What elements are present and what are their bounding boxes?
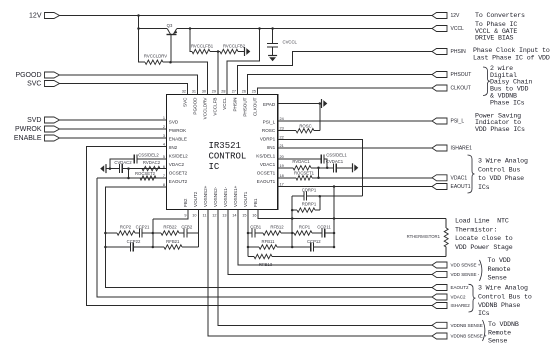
svg-text:OCSET1: OCSET1: [257, 170, 276, 175]
wire SVC to pin 32: [60, 84, 188, 95]
wire RDRP1 to junction: [315, 209, 320, 211]
off-page connector port EAOUT2: [432, 285, 447, 291]
wire VOUT2 pin 10 node vertical: [198, 210, 200, 248]
svg-text:VDD SENSE +: VDD SENSE +: [451, 263, 481, 268]
off-page connector port VDDNB SENSE+: [432, 333, 447, 339]
junction VDAC1 / ROCSET1 branch: [317, 167, 320, 170]
wire PHSOUT pin 26 to port: [248, 75, 433, 95]
svg-text:VCCL: VCCL: [451, 26, 465, 32]
svg-text:VDAC2: VDAC2: [451, 295, 467, 300]
wire VDAC1 bus to port: [312, 177, 432, 179]
capacitor CVDAC2: [119, 164, 122, 173]
wire VDAC1 pin 19: [278, 167, 293, 169]
wire FB2 node vertical: [152, 219, 154, 247]
svg-text:Load Line NTCThermistor:Locat: Load Line NTCThermistor:Locate close toV…: [455, 216, 513, 251]
wire RVDAC1 to CVDAC1: [311, 167, 333, 169]
wire VDAC2 bus to port: [97, 178, 432, 297]
svg-text:RTHERMISTOR1: RTHERMISTOR1: [407, 234, 441, 239]
wire RFB11 to FB1 node: [277, 246, 292, 248]
junction VOUT1 / CFB1 branch: [247, 232, 250, 235]
capacitor CDRP1: [304, 192, 307, 201]
svg-text:VOUT2: VOUT2: [193, 191, 198, 207]
svg-text:12V: 12V: [451, 13, 461, 19]
svg-text:EAOUT1: EAOUT1: [257, 179, 276, 184]
wire CCP11 to EAOUT1 node: [325, 232, 334, 234]
svg-text:VOSNS1+: VOSNS1+: [233, 185, 238, 207]
wire ROSC pin 23: [278, 130, 296, 132]
svg-text:27: 27: [232, 90, 236, 94]
svg-text:VCCL: VCCL: [222, 97, 227, 110]
resistor RVCCLFB1: [192, 49, 210, 53]
wire PGOOD to pin 31: [60, 75, 198, 95]
svg-text:CCP21: CCP21: [136, 225, 150, 230]
svg-text:IIN2: IIN2: [169, 145, 178, 150]
svg-text:ROSC: ROSC: [262, 128, 276, 133]
wire Q3 collector: [139, 28, 168, 30]
wire ROSC to ground node: [314, 130, 320, 132]
wire FB1 pin 16 / thermistor top: [258, 210, 446, 219]
wire RVCCLFB1 to RVCCLFB2: [210, 51, 220, 53]
svg-text:CCP12: CCP12: [307, 239, 321, 244]
svg-text:CLKOUT: CLKOUT: [451, 86, 471, 92]
svg-text:PHSOUT: PHSOUT: [451, 72, 472, 78]
svg-text:26: 26: [242, 90, 246, 94]
capacitor CCP22: [130, 243, 133, 252]
wire EAOUT2 to RCP2: [105, 232, 117, 234]
wire RFB12 to FB1 node: [281, 232, 292, 234]
resistor RFB13: [254, 254, 272, 258]
off-page connector port 12V (right): [432, 13, 447, 19]
svg-text:CVDAC2: CVDAC2: [114, 160, 132, 165]
wire 12V drop to RVCCLDRV: [139, 16, 146, 63]
svg-text:KS/DEL1: KS/DEL1: [256, 153, 275, 158]
capacitor CSS/DEL2: [134, 154, 137, 163]
svg-text:CSS/DEL1: CSS/DEL1: [326, 153, 347, 158]
wire CSS/DEL2 to ground net: [110, 159, 134, 169]
svg-text:OCSET2: OCSET2: [169, 170, 188, 175]
off-page connector port PGOOD (left): [45, 72, 60, 78]
svg-text:RVCCLFB2: RVCCLFB2: [223, 43, 246, 48]
wire pin 5 KS/DEL2 to CSS/DEL2: [137, 158, 166, 160]
wire RCP1 to CCP11: [312, 232, 322, 234]
junction VCCL / RVCCLFB1 branch: [189, 27, 192, 30]
junction VDAC2 / ROCSET2 branch: [127, 167, 130, 170]
wire FB2 to RFB22: [153, 232, 161, 234]
wire VCCL to CVCCL: [272, 29, 274, 44]
resistor RDRP1: [297, 208, 315, 212]
svg-text:VDRP1: VDRP1: [260, 136, 276, 141]
capacitor CFB2: [184, 229, 187, 238]
svg-text:Power SavingIndicator toVDD Ph: Power SavingIndicator toVDD Phase ICs: [475, 112, 525, 133]
brace PHSOUT/CLKOUT group: [483, 67, 490, 96]
off-page connector port 12V (left): [45, 13, 60, 19]
svg-text:Q3: Q3: [167, 23, 173, 28]
resistor ROCSET2: [140, 176, 156, 180]
svg-text:15: 15: [242, 214, 246, 218]
wire VOUT1 pin 15 node vertical: [247, 210, 249, 257]
svg-text:PHSIN: PHSIN: [232, 98, 237, 112]
svg-text:VCCLFB: VCCLFB: [212, 98, 217, 116]
svg-text:CVCCL: CVCCL: [283, 39, 298, 44]
junction 12V drop / Q3 collector: [137, 27, 140, 30]
resistor ROSC: [296, 129, 314, 133]
svg-text:IIN1: IIN1: [267, 145, 276, 150]
svg-text:PHSIN: PHSIN: [451, 49, 467, 55]
wire FB1 to RDRP1: [292, 209, 297, 211]
svg-text:RCP1: RCP1: [299, 225, 311, 230]
off-page connector port VDD SENSE+: [432, 262, 447, 268]
wire ROCSET1 to VDAC1 node: [318, 168, 320, 178]
wire OCSET1 pin 18: [278, 177, 296, 179]
wire RDRP1 box right vertical: [319, 196, 321, 210]
capacitor CVCCL: [267, 44, 278, 47]
off-page connector port VCCL: [432, 26, 447, 32]
wire IIN1 pin 21 to ISHARE1 port: [278, 147, 432, 149]
resistor RVDAC1: [293, 166, 311, 170]
resistor RVCCLDRV: [145, 60, 163, 64]
svg-text:13: 13: [222, 214, 226, 218]
svg-text:VDAC2: VDAC2: [169, 162, 185, 167]
brace EAOUT2/VDAC2/ISHARE2 group: [469, 284, 476, 312]
svg-text:VDD SENSE -: VDD SENSE -: [451, 272, 480, 277]
svg-text:EAOUT2: EAOUT2: [451, 285, 470, 290]
svg-text:CFB1: CFB1: [250, 225, 262, 230]
wire VOSNS2+ pin 11 to VDDNB SENSE+: [208, 210, 432, 337]
off-page connector port PSI_L: [432, 118, 447, 124]
wire RVCCLDRV to Q3 base node: [163, 61, 171, 63]
junction FB1 / RDRP1 branch: [291, 209, 294, 212]
svg-text:ISHARE1: ISHARE1: [451, 146, 473, 152]
capacitor CCP11: [322, 229, 325, 238]
junction CSS/DEL2 / ground net: [109, 167, 112, 170]
wire CCP12 to EAOUT1 node: [314, 246, 335, 248]
svg-text:RFB22: RFB22: [163, 225, 177, 230]
junction VCCL / pin28 branch: [258, 27, 261, 30]
svg-text:28: 28: [221, 90, 225, 94]
off-page connector port SVC (left): [45, 81, 60, 87]
wire CCP22 to RFB21: [133, 246, 164, 248]
wire RFB13 to thermistor bottom: [272, 256, 446, 258]
off-page connector port EAOUT1: [432, 184, 447, 190]
wire CDRP1 to VDRP1 route: [307, 195, 363, 197]
wire RFB22 to CFB2: [179, 232, 184, 234]
junction ROCSET2 / VDAC2 bus: [127, 177, 130, 180]
IC U1 IR3521 control IC body: [167, 95, 278, 210]
svg-text:PWROK: PWROK: [169, 128, 187, 133]
ground (EPAD): [321, 99, 323, 108]
wire thermistor bottom lead: [445, 247, 447, 257]
wire CSS/DEL1 to VDAC1 ground net: [324, 159, 327, 168]
junction ROCSET1 / VDAC1 bus: [317, 177, 320, 180]
svg-text:VOSNS1-: VOSNS1-: [223, 186, 228, 207]
brace VDDNB sense group: [483, 320, 485, 341]
svg-text:25: 25: [252, 90, 256, 94]
junction EAOUT1 vertical / thermistor top wire: [333, 217, 336, 220]
ground (below CVCCL): [268, 55, 277, 57]
junction VCCL / CVCCL branch: [271, 27, 274, 30]
wire FB1 to CDRP1: [292, 195, 304, 197]
svg-text:31: 31: [192, 90, 196, 94]
resistor RFB22: [161, 231, 179, 235]
svg-text:VDDNB SENSE +: VDDNB SENSE +: [451, 334, 488, 339]
junction VOUT1 / RFB11 branch: [247, 246, 250, 249]
svg-text:RFB21: RFB21: [166, 239, 180, 244]
svg-text:CLKOUT: CLKOUT: [252, 97, 257, 116]
wire FB2 node to pin 9: [153, 210, 188, 220]
junction FB1 / RCP1 branch: [291, 232, 294, 235]
wire EAOUT1 node vertical: [333, 187, 335, 248]
wire FB1 node vertical: [291, 196, 293, 247]
svg-text:VDAC1: VDAC1: [260, 162, 276, 167]
wire CVCCL to ground: [272, 47, 274, 56]
svg-text:SVC: SVC: [27, 81, 41, 88]
capacitor CVDAC1: [333, 163, 336, 172]
wire VOUT1 to RFB11: [248, 246, 259, 248]
resistor RCP2: [117, 231, 135, 235]
svg-text:SVD: SVD: [169, 119, 179, 124]
transistor Q3: [167, 29, 178, 63]
svg-text:PSI_L: PSI_L: [263, 119, 276, 124]
junction EAOUT1 / CCP12: [333, 246, 336, 249]
svg-text:FB2: FB2: [183, 198, 188, 207]
wire EAOUT2 to CCP22: [105, 246, 130, 248]
junction Q3 base / VCCLDRV node: [169, 61, 172, 64]
wire EAOUT1 pin 17 to port: [278, 186, 432, 188]
svg-text:RDRP1: RDRP1: [302, 202, 317, 207]
svg-text:PWROK: PWROK: [15, 126, 42, 133]
wire VOSNS2- pin 12 to VDDNB SENSE-: [218, 210, 432, 326]
svg-text:CFB2: CFB2: [181, 225, 193, 230]
svg-text:PSI_L: PSI_L: [451, 119, 465, 125]
off-page connector port VDD SENSE-: [432, 271, 447, 277]
svg-text:FB1: FB1: [253, 198, 258, 207]
off-page connector port SVD (left): [45, 117, 60, 123]
junction VCCLFB divider tap: [217, 50, 220, 53]
wire VOSNS1+ pin 14 to VDD SENSE+: [238, 210, 432, 266]
wire RCP2 to CCP21: [135, 232, 139, 234]
svg-text:29: 29: [212, 90, 216, 94]
svg-text:9: 9: [184, 214, 186, 218]
wire PWROK to pin 2: [60, 128, 167, 130]
svg-text:RVCCLFB1: RVCCLFB1: [191, 43, 214, 48]
wire CLKOUT pin 25 to port: [258, 88, 433, 95]
svg-text:ISHARE2: ISHARE2: [451, 303, 471, 308]
wire CCP21 to FB2 node: [142, 232, 153, 234]
svg-text:VOSNS2+: VOSNS2+: [203, 185, 208, 207]
off-page connector port ENABLE (left): [45, 135, 60, 141]
svg-text:VCCLDRV: VCCLDRV: [202, 97, 207, 120]
wire CVDAC2 to pin 6 VDAC2: [122, 168, 166, 170]
resistor RVCCLFB2: [220, 49, 238, 53]
svg-text:CSS/DEL2: CSS/DEL2: [138, 153, 159, 158]
resistor RFB21: [164, 245, 182, 249]
junction VDAC1 / CSS/DEL1 branch: [326, 167, 329, 170]
wire VCCLFB tap to pin 29: [217, 52, 219, 95]
wire VOUT1 to RFB13: [248, 256, 254, 258]
wire KS/DEL1 pin 20 to CSS/DEL1: [278, 158, 322, 160]
wire VDAC2 branch down to ROCSET2 row: [128, 169, 130, 178]
off-page connector port PHSIN: [432, 49, 447, 55]
junction FB2 / RFB21 branch: [152, 246, 155, 249]
svg-text:CDRP1: CDRP1: [302, 188, 317, 193]
svg-text:EAOUT2: EAOUT2: [169, 179, 188, 184]
svg-text:32: 32: [182, 90, 186, 94]
wire VOUT1 to CFB1: [248, 232, 252, 234]
wire VCCL to pin 28: [227, 29, 260, 95]
svg-text:ROCSET1: ROCSET1: [294, 171, 315, 176]
svg-text:EPAD: EPAD: [263, 102, 276, 107]
svg-text:ENABLE: ENABLE: [169, 136, 187, 141]
svg-text:RCP2: RCP2: [120, 225, 132, 230]
svg-text:30: 30: [202, 90, 206, 94]
wire FB1 to CCP12: [292, 246, 311, 248]
off-page connector port PHSOUT: [432, 72, 447, 78]
off-page connector port PWROK (left): [45, 126, 60, 132]
svg-text:KS/DEL2: KS/DEL2: [169, 153, 188, 158]
svg-text:VDDNB SENSE: VDDNB SENSE: [451, 323, 483, 328]
wire ROCSET2 row pin 7: [97, 177, 167, 179]
resistor RFB12: [263, 231, 281, 235]
wire VCCL down to RVCCLFB1: [190, 29, 192, 52]
svg-text:SVD: SVD: [27, 117, 41, 124]
svg-text:RFB12: RFB12: [270, 225, 284, 230]
svg-text:CCP22: CCP22: [127, 239, 141, 244]
svg-text:To Phase ICVCCL & GATEDRIVE BI: To Phase ICVCCL & GATEDRIVE BIAS: [475, 20, 517, 41]
off-page connector port VDAC2: [432, 294, 447, 300]
svg-text:12: 12: [212, 214, 216, 218]
junction EAOUT2 / CCP22 branch: [104, 246, 107, 249]
ground (VDAC2 network): [105, 164, 107, 173]
wire ENABLE to pin 3: [60, 137, 167, 139]
svg-text:EAOUT1: EAOUT1: [451, 184, 471, 190]
svg-text:PGOOD: PGOOD: [192, 97, 197, 115]
capacitor CCP21: [139, 229, 142, 238]
junction EAOUT1 / compensation branch: [333, 185, 336, 188]
svg-text:RFB11: RFB11: [262, 239, 276, 244]
wire CVDAC1 to ground: [336, 167, 352, 169]
svg-text:RFB13: RFB13: [259, 262, 273, 267]
svg-text:SVC: SVC: [182, 97, 187, 107]
brace VDD sense group: [480, 260, 482, 281]
svg-text:Phase Clock Input toLast Phase: Phase Clock Input toLast Phase IC of VDD: [473, 46, 550, 62]
wire SVD to pin 1: [60, 119, 167, 121]
junction EPAD / ROSC ground node: [319, 102, 322, 105]
svg-text:VDAC1: VDAC1: [451, 175, 468, 181]
wire FB1 to RCP1: [292, 232, 294, 234]
capacitor CCP12: [311, 243, 314, 252]
wire thermistor top lead: [445, 219, 447, 229]
svg-text:10: 10: [192, 214, 196, 218]
resistor RFB11: [259, 245, 277, 249]
wire 12V rail: [60, 15, 433, 17]
wire PSI_L pin 24 to port: [278, 120, 432, 122]
wire EPAD to ground: [278, 103, 320, 105]
wire PHSIN pin 27 to port: [238, 52, 433, 95]
svg-text:ROCSET2: ROCSET2: [135, 171, 156, 176]
junction FB1 / CCP12 branch: [291, 246, 294, 249]
wire CFB2 to VOUT2 node: [187, 232, 199, 234]
junction EAOUT2 / RCP2 branch: [104, 232, 107, 235]
svg-text:VOUT1: VOUT1: [243, 191, 248, 207]
junction FB1 node / thermistor top: [291, 217, 294, 220]
wire EAOUT2 pin 8 bus to port: [105, 187, 432, 288]
svg-text:CVDAC1: CVDAC1: [326, 159, 344, 164]
wire VOSNS1- pin 13 to VDD SENSE-: [228, 210, 432, 275]
svg-text:23: 23: [280, 127, 284, 131]
off-page connector port CLKOUT: [432, 85, 447, 91]
wire VCCLDRV node to pin 30: [171, 62, 208, 94]
wire IIN2 pin 4 / ISHARE2 bus: [87, 147, 433, 306]
resistor RVDAC2: [142, 166, 160, 170]
svg-text:To Converters: To Converters: [475, 11, 525, 19]
svg-text:RVDAC1: RVDAC1: [292, 159, 310, 164]
svg-text:16: 16: [252, 214, 256, 218]
svg-text:PGOOD: PGOOD: [15, 72, 41, 79]
ground (VDAC1 network): [352, 163, 354, 172]
svg-text:ENABLE: ENABLE: [14, 135, 42, 142]
resistor RCP1: [294, 231, 312, 235]
off-page connector port VDAC1: [432, 175, 447, 181]
resistor ROCSET1: [296, 176, 312, 180]
capacitor CFB1: [252, 229, 255, 238]
svg-text:RVCCLDRV: RVCCLDRV: [144, 54, 167, 59]
svg-text:CCP11: CCP11: [317, 225, 331, 230]
wire ground to CVDAC2: [106, 168, 119, 170]
junction 12V rail / RVCCLDRV branch: [137, 14, 140, 17]
junction EAOUT1 / CCP11: [333, 232, 336, 235]
wire RVCCLFB2 to ground: [238, 51, 245, 53]
svg-text:PHSOUT: PHSOUT: [242, 97, 247, 116]
off-page connector port ISHARE2: [432, 303, 447, 309]
off-page connector port ISHARE1: [432, 145, 447, 151]
svg-text:11: 11: [203, 214, 207, 218]
ground (right of RVCCLFB2): [244, 47, 246, 56]
junction CDRP1 / RDRP1 junction: [319, 195, 322, 198]
svg-text:14: 14: [232, 214, 236, 218]
svg-text:VOSNS2-: VOSNS2-: [213, 186, 218, 207]
junction FB2 / RFB22 branch: [152, 232, 155, 235]
capacitor CSS/DEL1: [321, 154, 324, 163]
svg-text:RVDAC2: RVDAC2: [143, 160, 161, 165]
brace ISHARE1/VDAC1/EAOUT1 group: [468, 155, 475, 193]
off-page connector port VDDNB SENSE-: [432, 322, 447, 328]
svg-text:12V: 12V: [29, 13, 42, 20]
wire CFB1 to RFB12: [255, 232, 263, 234]
svg-text:ROSC: ROSC: [299, 124, 311, 129]
wire VDRP1 pin 22 route: [278, 140, 363, 197]
wire Q3 emitter / VCCL net: [177, 28, 432, 30]
IC U1 pin names and numbers: [163, 90, 284, 218]
wire EPAD node down to ROSC: [319, 104, 321, 131]
wire RFB21 to VOUT2 node: [182, 246, 199, 248]
